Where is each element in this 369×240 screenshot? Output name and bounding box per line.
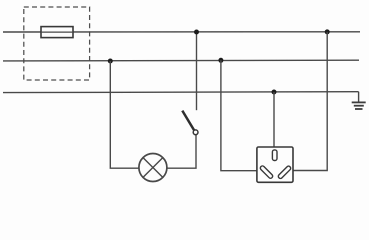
node dot on N for lamp branch	[108, 59, 113, 64]
wire PE drop to earth	[358, 92, 360, 102]
wire socket right branch	[293, 32, 327, 171]
ground (earth) symbol	[352, 102, 366, 109]
wire socket earth drop	[273, 92, 275, 147]
node dot on PE for socket earth	[272, 90, 277, 95]
node dot on L for socket branch	[325, 29, 330, 34]
socket right slot	[277, 165, 291, 179]
wire lamp branch left drop	[110, 61, 139, 168]
fuse FU	[41, 27, 73, 38]
socket left slot	[259, 165, 273, 179]
socket XS (3-pin outlet body)	[257, 147, 293, 182]
lamp EL (circle with cross)	[139, 154, 167, 182]
wire L bus (line 1)	[3, 31, 360, 33]
wire N bus (line 2)	[3, 59, 359, 62]
wire switch top stub to L	[196, 32, 198, 110]
wire socket left branch	[221, 60, 257, 170]
distribution board dashed enclosure	[24, 7, 90, 80]
wire PE bus (line 3)	[3, 91, 359, 94]
wire lamp to switch bottom	[167, 135, 196, 168]
node dot on L for switch branch	[194, 30, 199, 35]
switch S (open lever with pivot circle)	[182, 111, 194, 131]
socket earth slot (top)	[272, 150, 277, 161]
node dot on N for socket branch	[218, 58, 223, 63]
